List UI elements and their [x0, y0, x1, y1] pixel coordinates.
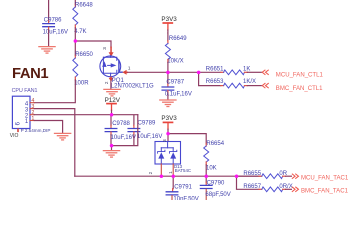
offpage chevrons BMC_FAN_CTL1	[262, 83, 268, 87]
svg-text:CPU FAN1: CPU FAN1	[12, 88, 38, 94]
wire Q1 to ctl node	[128, 71, 199, 73]
junction R6649 node	[166, 71, 170, 75]
svg-text:C9786: C9786	[44, 17, 62, 23]
svg-text:10uF,16V: 10uF,16V	[43, 29, 68, 35]
wire top-left vertical into C9786	[48, 0, 50, 21]
junction ctl branch	[197, 71, 201, 75]
wire R6653 to port	[245, 85, 248, 87]
svg-text:2: 2	[148, 171, 153, 174]
ground at Q1 source	[104, 89, 120, 96]
svg-text:R6650: R6650	[75, 52, 93, 58]
capacitor C9791	[166, 176, 199, 203]
wire R6655 to port	[283, 175, 286, 177]
wire ctl branch down	[199, 72, 221, 85]
svg-text:C9787: C9787	[166, 79, 184, 85]
svg-text:1: 1	[128, 65, 131, 70]
tach bus wire	[75, 175, 262, 177]
connector bottom stub	[17, 129, 19, 133]
svg-text:C9789: C9789	[138, 121, 156, 127]
offpage chevrons MCU_FAN_TAC1	[292, 174, 298, 178]
ground below C9787	[160, 100, 176, 107]
ground below cap rail	[103, 151, 119, 158]
wire fan pin3 to tach bus	[34, 109, 75, 177]
transistor Q1 circle	[100, 56, 121, 77]
pin numbers	[31, 98, 34, 122]
wire node to diode box	[167, 134, 169, 142]
capacitor C9787	[162, 72, 192, 99]
svg-text:10uF,16V: 10uF,16V	[111, 135, 136, 141]
svg-text:L2N7002KLT1G: L2N7002KLT1G	[111, 84, 154, 90]
svg-text:P3V3: P3V3	[161, 115, 177, 122]
svg-text:3: 3	[162, 139, 167, 142]
capacitor C9789	[128, 115, 162, 145]
diode D13 box	[155, 142, 181, 165]
offpage chevrons BMC_FAN_TAC1	[292, 187, 298, 191]
pin 1 arrow into Q1 gate right	[122, 70, 128, 75]
wire R6649 bottom to node	[167, 60, 169, 63]
svg-text:R6653: R6653	[206, 79, 224, 85]
offpage chevrons MCU_FAN_CTL1	[262, 70, 268, 74]
transistor Q1 internals	[103, 56, 122, 77]
capacitor C9790	[200, 176, 230, 200]
svg-text:R6649: R6649	[169, 36, 187, 42]
wire R6650 bottom to fan pin4	[74, 77, 76, 80]
wire R6654 to bus	[205, 162, 207, 165]
junction ground rail	[110, 144, 114, 148]
pin 2 arrow out Q1 bottom	[109, 77, 114, 82]
wire tac branch down	[237, 176, 260, 189]
junction diode pin2 bus	[160, 175, 164, 179]
junction P12V rail	[110, 113, 114, 117]
wire R6657 to port	[283, 188, 286, 190]
power P3V3 symbol top	[163, 23, 172, 30]
svg-text:P3V3: P3V3	[161, 16, 177, 23]
svg-text:R6655: R6655	[243, 171, 261, 177]
junction R6654 bus	[205, 175, 209, 179]
svg-text:10K: 10K	[206, 166, 217, 172]
wire R6651 to port	[245, 71, 248, 73]
resistor R6648	[73, 0, 94, 35]
resistor R6649	[165, 33, 187, 64]
power P3V3 symbol mid	[164, 122, 173, 129]
svg-text:BAT54C: BAT54C	[175, 168, 191, 173]
svg-text:C9791: C9791	[174, 184, 192, 190]
connector CPU FAN1 box	[12, 96, 30, 128]
wire diode pin2 to bus	[160, 164, 162, 176]
capacitor C9788	[105, 116, 136, 146]
svg-text:P 2.54mm,DIP: P 2.54mm,DIP	[21, 128, 51, 133]
wire node to R6654	[168, 134, 206, 144]
svg-text:10K/X: 10K/X	[167, 58, 183, 64]
svg-text:R6651: R6651	[206, 67, 224, 73]
svg-text:2: 2	[104, 81, 109, 84]
wire R6648 bottom to junction	[74, 25, 76, 28]
svg-text:0.1uF,16V: 0.1uF,16V	[165, 92, 192, 98]
wire fan pin2 to P12V rail	[34, 114, 138, 116]
junction diode top node	[166, 132, 170, 136]
resistor R6657	[243, 184, 292, 192]
power P12V symbol	[107, 104, 116, 111]
svg-text:VIO: VIO	[10, 133, 19, 139]
resistor R6651	[206, 67, 251, 75]
wire rail right edge loop	[111, 115, 138, 146]
svg-text:1: 1	[168, 171, 173, 174]
svg-text:1K: 1K	[243, 67, 250, 73]
svg-text:BMC_FAN_CTL1: BMC_FAN_CTL1	[276, 86, 323, 92]
wire diode pin1 to bus	[172, 164, 174, 176]
svg-text:R6654: R6654	[206, 141, 224, 147]
wire C9786 bottom to ground	[48, 27, 50, 30]
resistor R6653	[206, 79, 256, 88]
wire ctl node to R6651	[199, 71, 221, 73]
svg-text:R6657: R6657	[243, 184, 261, 190]
svg-text:MCU_FAN_CTL1: MCU_FAN_CTL1	[276, 73, 324, 79]
junction diode pin1 bus	[172, 175, 176, 179]
svg-text:C9788: C9788	[112, 121, 130, 127]
ground below C9786	[39, 47, 55, 54]
svg-text:10uF,16V: 10uF,16V	[137, 134, 162, 140]
wire junction to MOSFET gate-top	[75, 41, 111, 48]
resistor R6655	[243, 171, 287, 179]
svg-text:BMC_FAN_TAC1: BMC_FAN_TAC1	[301, 189, 349, 195]
resistor R6654	[204, 141, 225, 171]
ground at fan pin1	[55, 133, 71, 140]
wire rail to ground	[111, 146, 113, 150]
node gate junction	[74, 39, 78, 43]
junction tac branch	[235, 175, 239, 179]
svg-text:MCU_FAN_TAC1: MCU_FAN_TAC1	[301, 175, 349, 181]
wire tac node to R6655	[237, 175, 260, 177]
svg-text:1K/X: 1K/X	[243, 79, 256, 85]
pin stubs	[30, 103, 34, 121]
svg-text:100R: 100R	[74, 80, 89, 86]
svg-text:3: 3	[102, 47, 107, 50]
wire Q1 source to ground	[110, 81, 112, 89]
svg-text:FAN1: FAN1	[12, 66, 48, 82]
wire fan pin1 to ground	[34, 121, 62, 133]
resistor R6650	[73, 41, 94, 86]
svg-text:R6648: R6648	[75, 2, 93, 8]
pin 3 arrow into Q1 top	[109, 47, 114, 57]
svg-text:C9790: C9790	[207, 180, 225, 186]
svg-text:4.7K: 4.7K	[74, 29, 86, 35]
diode D13 internals	[158, 142, 177, 165]
svg-text:68pF,50V: 68pF,50V	[205, 192, 230, 198]
connector pin names 4,3,2,1	[25, 101, 29, 125]
capacitor C9786	[43, 17, 68, 35]
svg-text:10nF,50V: 10nF,50V	[173, 197, 198, 200]
